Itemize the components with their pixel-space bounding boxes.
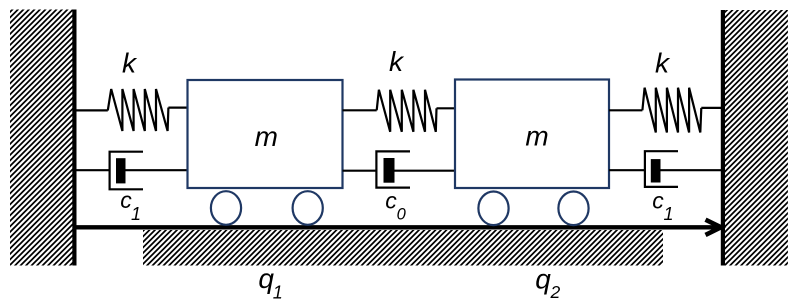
wheel 2 of mass 1 [293,191,323,225]
wire: spring k3 right lead [701,107,722,109]
ground line [76,225,720,229]
svg-text:k: k [655,48,671,79]
damper c0 piston [384,158,395,183]
svg-text:k: k [389,46,405,77]
label q2 (coordinate of mass 2) [535,264,560,302]
label q1 (coordinate of mass 1) [258,263,282,302]
left wall [10,10,73,266]
wheel 2 of mass 2 [558,192,588,226]
damper c1 right piston [651,159,661,182]
wire: damper c1 right rod [661,169,722,171]
svg-text:c: c [652,187,664,213]
wire: damper c1 left lead [76,169,110,171]
right wall [725,10,788,266]
mass block 2 [455,80,609,189]
svg-text:m: m [255,121,278,152]
wire: damper c0 left lead [343,170,377,172]
right wall face [721,10,725,266]
svg-text:2: 2 [550,282,561,302]
spring k1 [108,89,169,131]
wire: damper c1 left rod [126,169,188,171]
svg-text:q: q [535,264,551,295]
label c1 (left damper) [120,187,141,224]
spring k2 [377,90,437,132]
wheel 1 of mass 1 [211,191,241,225]
wire: damper c1 right lead [609,169,645,171]
damper c1 left cylinder [110,152,143,190]
damper c0 cylinder [376,151,410,187]
svg-text:c: c [385,187,397,213]
svg-text:m: m [525,120,548,151]
ground hatch strip [143,230,663,266]
wire: spring k1 left lead [76,109,108,111]
label c0 (middle damper) [385,187,406,223]
svg-text:1: 1 [131,204,141,224]
wire: spring k1 right lead [168,106,187,108]
wire: spring k2 left lead [343,109,377,111]
mass block 1 [188,80,343,188]
wire: damper c0 rod [395,170,456,172]
left wall face [72,10,76,266]
wire: spring k2 right lead [437,107,456,109]
svg-text:0: 0 [397,205,407,223]
svg-text:k: k [122,48,138,79]
label c1 (right damper) [652,187,673,224]
damper c1 right cylinder [645,151,678,187]
svg-text:1: 1 [663,204,673,224]
damper c1 left piston [116,158,126,183]
spring k3 [642,88,701,133]
ground arrowhead [706,220,722,235]
wheel 1 of mass 2 [478,192,508,226]
svg-text:1: 1 [273,283,283,303]
wire: spring k3 left lead [609,109,642,111]
